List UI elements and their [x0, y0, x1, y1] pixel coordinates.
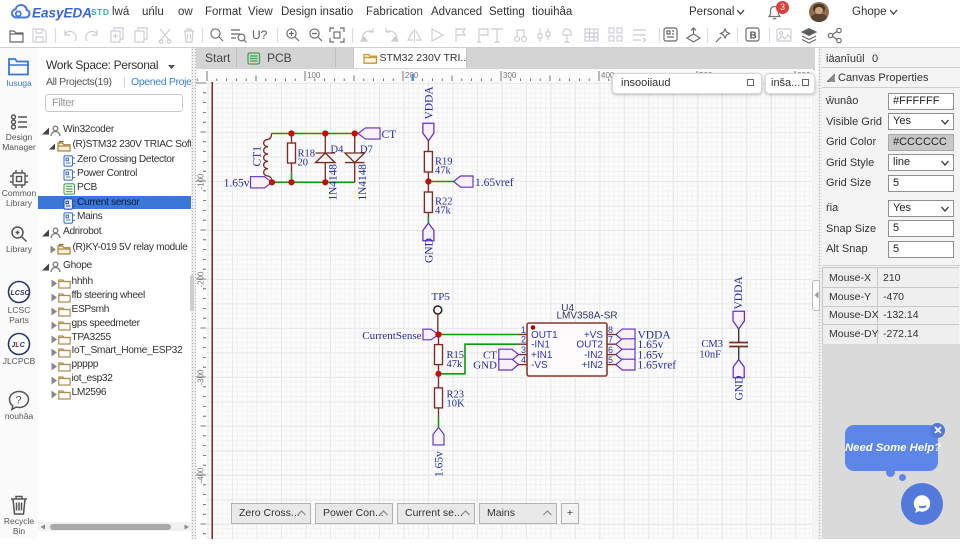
- net flag 1.65v left: [251, 177, 273, 188]
- net flag CT: [358, 128, 380, 139]
- svg-text:CurrentSense: CurrentSense: [362, 330, 421, 342]
- svg-text:8: 8: [608, 325, 613, 335]
- pin 1 marker dot: [531, 325, 536, 330]
- power flag VDDA (divider): [423, 86, 435, 120]
- svg-text:1.65v: 1.65v: [224, 178, 250, 190]
- net flag CurrentSense: [423, 329, 439, 340]
- pin numbers: [521, 325, 613, 365]
- net flag 1.65vref pin5: [616, 359, 635, 370]
- svg-text:OUT2: OUT2: [576, 340, 603, 351]
- junction dot R15/R23: [435, 371, 441, 377]
- svg-text:4: 4: [521, 355, 526, 365]
- svg-text:CT: CT: [382, 129, 397, 141]
- junction dot divider: [425, 178, 431, 184]
- resistor R22: [424, 182, 432, 218]
- wire CurrentSense to OUT1: [439, 334, 519, 336]
- svg-text:EasyEDA: EasyEDA: [32, 6, 92, 21]
- canvas tabs: [196, 48, 815, 70]
- chat widget: [845, 425, 938, 471]
- svg-text:7: 7: [608, 335, 613, 345]
- U4 pins left: [519, 335, 528, 365]
- svg-text:2: 2: [521, 335, 526, 345]
- svg-text:CT1: CT1: [252, 146, 264, 167]
- svg-text:1.65v: 1.65v: [433, 451, 445, 477]
- svg-text:20: 20: [298, 158, 309, 169]
- U4 pins right: [607, 335, 616, 365]
- wire to 1.65vref: [428, 181, 453, 183]
- resistor R23: [435, 374, 443, 418]
- svg-text:1.65vref: 1.65vref: [638, 360, 677, 372]
- left icon strip: [0, 48, 38, 539]
- svg-text:-IN1: -IN1: [531, 340, 550, 351]
- resistor R18: [288, 134, 296, 173]
- net flag 1.65v bottom: [433, 427, 444, 445]
- svg-text:CM3: CM3: [701, 339, 723, 350]
- svg-text:10nF: 10nF: [699, 350, 721, 361]
- capacitor CM3: [738, 329, 740, 342]
- svg-text:?: ?: [16, 395, 22, 407]
- svg-text:47k: 47k: [435, 166, 452, 177]
- inductor CT1: [264, 134, 272, 183]
- diode D7: [345, 134, 365, 183]
- junction dots bottom wire: [269, 179, 329, 185]
- diode D4: [316, 134, 336, 183]
- svg-text:GND: GND: [473, 359, 497, 371]
- panel collapse handle: [812, 280, 820, 311]
- svg-text:1.65vref: 1.65vref: [475, 177, 514, 189]
- svg-text:U?: U?: [252, 28, 268, 42]
- svg-text:GND: GND: [734, 376, 746, 401]
- svg-text:GND: GND: [423, 238, 435, 263]
- project tree: [38, 48, 191, 539]
- svg-text:5: 5: [608, 355, 613, 365]
- wire R18 to bottom: [291, 173, 293, 183]
- svg-text:LMV358A-SR: LMV358A-SR: [557, 311, 618, 322]
- resistor R19: [424, 141, 432, 182]
- schematic svg overlay: [196, 69, 813, 539]
- op-amp U4 body: [527, 323, 607, 376]
- svg-text:-VS: -VS: [531, 360, 548, 371]
- net flag 1.65v pin7: [616, 339, 635, 350]
- svg-text:1: 1: [521, 325, 526, 335]
- sheet border: [211, 82, 213, 539]
- menubar: [0, 0, 960, 24]
- svg-text:1N4148: 1N4148: [328, 164, 340, 201]
- junction dots top wire: [288, 130, 357, 136]
- svg-text:TP5: TP5: [432, 291, 451, 303]
- wire feedback to -IN1: [439, 344, 519, 374]
- toolbar: [0, 24, 960, 48]
- net flag 1.65vref: [454, 176, 473, 187]
- wire R22 to GND: [427, 217, 429, 223]
- svg-text:JLC: JLC: [12, 342, 26, 349]
- svg-text:+IN2: +IN2: [582, 360, 604, 371]
- net flag CT pin3: [499, 349, 519, 360]
- pin names: [531, 330, 603, 371]
- floating panels: [612, 73, 762, 94]
- net flag 1.65v pin6: [616, 349, 635, 360]
- bottom sheet tabs: [231, 503, 311, 524]
- label CT1: [252, 146, 264, 167]
- svg-text:B: B: [750, 31, 757, 42]
- power flag VDDA (CM3): [733, 276, 745, 310]
- svg-text:VDDA: VDDA: [423, 86, 435, 120]
- svg-text:D4: D4: [331, 145, 345, 156]
- svg-text:LCSC: LCSC: [11, 290, 31, 297]
- power flag GND (divider): [423, 223, 434, 241]
- svg-text:D7: D7: [360, 145, 373, 156]
- resistor R15: [435, 335, 443, 374]
- junction dot CurrentSense: [435, 331, 441, 337]
- svg-text:6: 6: [608, 345, 613, 355]
- wire bottom net 1.65v: [272, 181, 355, 183]
- right panel: [822, 48, 960, 539]
- net flag VDDA pin8: [616, 329, 635, 340]
- svg-text:VDDA: VDDA: [733, 276, 745, 310]
- svg-text:1N4148: 1N4148: [357, 164, 369, 201]
- wire R23 to 1.65v: [438, 418, 440, 428]
- net flag GND pin4: [499, 359, 519, 370]
- wire top net CT: [272, 133, 359, 135]
- svg-text:47k: 47k: [447, 359, 464, 370]
- svg-text:47k: 47k: [435, 206, 452, 217]
- power flag GND (CM3): [733, 360, 744, 378]
- svg-text:10K: 10K: [447, 399, 466, 410]
- svg-text:3: 3: [521, 345, 526, 355]
